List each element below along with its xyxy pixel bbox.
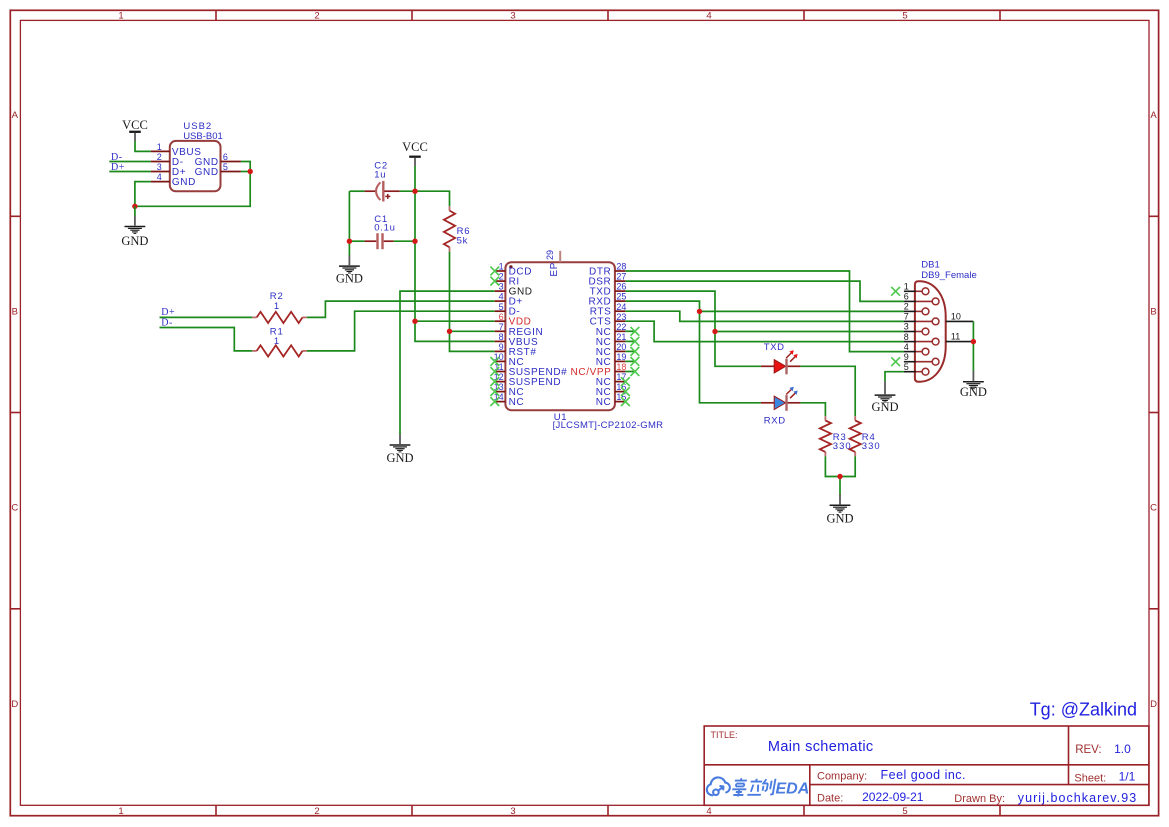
junction RXD branch bbox=[697, 309, 702, 314]
no-connect X U1 pin 14 bbox=[490, 397, 499, 406]
wire TXD led to R4 bbox=[800, 366, 855, 416]
svg-text:GND: GND bbox=[826, 511, 853, 525]
resistor R2 1 bbox=[252, 291, 307, 323]
no-connect X U1 pin 13 bbox=[490, 387, 499, 396]
svg-text:Date:: Date: bbox=[817, 792, 843, 804]
junction REGIN branch bbox=[447, 329, 452, 334]
wire R3/R4 bottoms to ground bbox=[825, 456, 855, 476]
svg-text:5: 5 bbox=[499, 302, 504, 312]
capacitor C1 0.1u bbox=[365, 214, 396, 249]
svg-text:5: 5 bbox=[902, 806, 907, 817]
no-connect X U1 pin 16 bbox=[621, 387, 630, 396]
wire RTS pin24 to DB9 pin7 bbox=[625, 311, 904, 321]
svg-text:C: C bbox=[11, 503, 18, 514]
svg-text:5: 5 bbox=[902, 10, 907, 21]
wire D- to R1 bbox=[160, 328, 253, 351]
svg-text:8: 8 bbox=[499, 332, 504, 342]
wire junction to GND symbol bbox=[134, 206, 136, 216]
ground GND (DB1 pin11) bbox=[960, 371, 987, 399]
wire D- to USB2 pin 2 bbox=[109, 161, 151, 163]
wire R2 to U1 pin 4 D+ bbox=[307, 301, 495, 317]
svg-text:A: A bbox=[12, 110, 19, 121]
svg-text:29: 29 bbox=[545, 250, 555, 260]
svg-text:EDA: EDA bbox=[776, 781, 810, 798]
led RXD (blue) bbox=[761, 387, 801, 427]
logo JLC EDA bbox=[707, 777, 809, 797]
svg-text:yurij.bochkarev.93: yurij.bochkarev.93 bbox=[1018, 791, 1137, 805]
svg-text:9: 9 bbox=[499, 342, 504, 352]
svg-text:[JLCSMT]-CP2102-GMR: [JLCSMT]-CP2102-GMR bbox=[553, 420, 664, 431]
svg-text:Sheet:: Sheet: bbox=[1074, 773, 1106, 785]
svg-text:1: 1 bbox=[274, 301, 279, 312]
wire D+ to R2 bbox=[160, 316, 253, 318]
resistor R3 330 bbox=[820, 416, 852, 456]
svg-text:6: 6 bbox=[223, 152, 228, 162]
ground GND (DB1 pin5) bbox=[871, 381, 898, 414]
wire VCC rail down to VBUS pin 8 bbox=[415, 166, 495, 341]
wire R1 to U1 pin 5 D- bbox=[307, 311, 495, 351]
svg-text:19: 19 bbox=[616, 352, 626, 362]
svg-text:4: 4 bbox=[706, 806, 711, 817]
power flag VCC (main) bbox=[402, 140, 428, 166]
wire RXD branch to DB9 pin2 bbox=[700, 310, 904, 312]
no-connect X U1 pin 18 bbox=[631, 367, 640, 376]
wire DB1 pin 10 to pin 11 bbox=[972, 321, 974, 341]
svg-text:GND: GND bbox=[172, 177, 196, 188]
svg-text:7: 7 bbox=[499, 322, 504, 332]
svg-text:24: 24 bbox=[616, 302, 626, 312]
svg-text:B: B bbox=[1150, 306, 1156, 317]
wire U1 pin 3 GND to ground bbox=[400, 291, 495, 434]
svg-text:18: 18 bbox=[616, 362, 626, 372]
svg-text:A: A bbox=[1150, 110, 1157, 121]
connector USB2 USB-B01 bbox=[151, 121, 241, 191]
svg-text:3: 3 bbox=[510, 10, 515, 21]
wire C2/C1 left vertical bbox=[348, 191, 350, 255]
svg-text:1: 1 bbox=[274, 336, 279, 347]
junction TXD branch bbox=[712, 329, 717, 334]
svg-text:TXD: TXD bbox=[764, 342, 785, 353]
power flag VCC (USB2) bbox=[122, 118, 148, 141]
wire TXD branch to DB9 pin3 bbox=[715, 331, 904, 333]
svg-text:GND: GND bbox=[960, 385, 987, 399]
title block bbox=[704, 726, 1149, 805]
svg-text:9: 9 bbox=[904, 352, 909, 362]
ic U1 [JLCSMT]-CP2102-GMR bbox=[494, 250, 664, 431]
svg-text:GND: GND bbox=[195, 167, 219, 178]
no-connect X U1 pin 15 bbox=[621, 397, 630, 406]
junction VCC/C1 node bbox=[412, 239, 417, 244]
wire DB1 pin 11 to ground bbox=[972, 342, 974, 371]
svg-text:21: 21 bbox=[616, 332, 626, 342]
svg-text:RXD: RXD bbox=[764, 415, 786, 426]
svg-text:D: D bbox=[1150, 699, 1157, 710]
ground GND (R3/R4) bbox=[826, 494, 853, 525]
svg-text:3: 3 bbox=[499, 282, 504, 292]
svg-text:3: 3 bbox=[510, 806, 515, 817]
svg-text:1: 1 bbox=[118, 806, 123, 817]
junction VCC/C2 node bbox=[412, 189, 417, 194]
svg-text:2: 2 bbox=[314, 806, 319, 817]
svg-text:Main schematic: Main schematic bbox=[768, 739, 874, 755]
wire VCC to USB2 pin 1 bbox=[135, 141, 151, 151]
svg-text:Drawn By:: Drawn By: bbox=[954, 793, 1005, 805]
wire USB2 pin 4 to ground junction bbox=[135, 182, 151, 207]
svg-text:NC: NC bbox=[509, 397, 525, 408]
svg-text:0.1u: 0.1u bbox=[374, 222, 395, 233]
ground GND (U1 pin3) bbox=[386, 434, 413, 465]
resistor R4 330 bbox=[850, 416, 881, 456]
wire VDD branch to pin 6 bbox=[415, 320, 495, 322]
svg-text:TITLE:: TITLE: bbox=[711, 730, 738, 740]
ground GND (C1/C2) bbox=[336, 255, 363, 285]
svg-text:1/1: 1/1 bbox=[1119, 770, 1136, 784]
svg-text:28: 28 bbox=[616, 262, 626, 272]
wire DTR pin28 to DB9 pin4 bbox=[625, 271, 904, 352]
svg-text:EP: EP bbox=[549, 262, 560, 277]
svg-text:330: 330 bbox=[862, 441, 881, 452]
wire C2 row left bbox=[349, 190, 364, 192]
ground GND (USB) bbox=[121, 216, 148, 248]
svg-text:23: 23 bbox=[616, 312, 626, 322]
svg-text:5: 5 bbox=[904, 362, 909, 372]
wire D+ to USB2 pin 3 bbox=[109, 171, 151, 173]
svg-text:GND: GND bbox=[121, 234, 148, 248]
wire REGIN branch to pin 7 bbox=[450, 330, 495, 332]
svg-text:11: 11 bbox=[951, 332, 960, 342]
svg-text:330: 330 bbox=[833, 441, 852, 452]
svg-text:Tg: @Zalkind: Tg: @Zalkind bbox=[1030, 700, 1137, 720]
junction at USB ground node bbox=[132, 204, 137, 209]
no-connect X U1 pin 19 bbox=[631, 357, 640, 366]
no-connect X DB1 pin 1 bbox=[891, 287, 900, 296]
svg-text:20: 20 bbox=[616, 342, 626, 352]
svg-text:1: 1 bbox=[904, 282, 909, 292]
no-connect X U1 pin 1 bbox=[490, 267, 499, 276]
svg-text:REV:: REV: bbox=[1075, 744, 1101, 756]
svg-text:GND: GND bbox=[871, 400, 898, 414]
svg-text:8: 8 bbox=[904, 332, 909, 342]
svg-text:6: 6 bbox=[904, 292, 909, 302]
svg-text:2: 2 bbox=[314, 10, 319, 21]
svg-text:VCC: VCC bbox=[402, 140, 428, 154]
svg-text:1: 1 bbox=[499, 262, 504, 272]
svg-text:VCC: VCC bbox=[122, 118, 148, 132]
no-connect X U1 pin 10 bbox=[490, 357, 499, 366]
svg-text:26: 26 bbox=[616, 282, 626, 292]
wire stub U1 pin 21 bbox=[625, 340, 635, 342]
wire C1 row left bbox=[349, 240, 364, 242]
no-connect X U1 pin 12 bbox=[490, 377, 499, 386]
resistor R1 1 bbox=[252, 326, 307, 356]
svg-text:6: 6 bbox=[499, 312, 504, 322]
svg-text:3: 3 bbox=[904, 322, 909, 332]
junction R3/R4 ground node bbox=[837, 474, 842, 479]
svg-text:Company:: Company: bbox=[817, 771, 867, 783]
svg-text:10: 10 bbox=[951, 312, 961, 322]
svg-text:27: 27 bbox=[616, 272, 626, 282]
wire RXD led to R3 bbox=[800, 403, 825, 416]
svg-text:C: C bbox=[1150, 503, 1157, 514]
no-connect X U1 pin 2 bbox=[490, 277, 499, 286]
wire C2 row right to VCC rail and R6 bbox=[400, 191, 450, 206]
svg-text:Feel good inc.: Feel good inc. bbox=[881, 768, 967, 782]
svg-text:3: 3 bbox=[157, 162, 162, 172]
svg-text:4: 4 bbox=[157, 172, 162, 182]
wire stub U1 pin 20 bbox=[625, 350, 635, 352]
svg-text:D: D bbox=[11, 699, 18, 710]
svg-text:1: 1 bbox=[157, 142, 162, 152]
svg-text:7: 7 bbox=[904, 312, 909, 322]
svg-text:DB9_Female: DB9_Female bbox=[921, 270, 976, 281]
capacitor C2 1u (polarized) bbox=[365, 161, 400, 202]
wire CTS pin23 to DB9 pin8 bbox=[625, 321, 904, 341]
svg-text:5k: 5k bbox=[457, 235, 469, 246]
svg-text:4: 4 bbox=[499, 292, 504, 302]
svg-text:2: 2 bbox=[499, 272, 504, 282]
no-connect X U1 pin 21 bbox=[631, 337, 640, 346]
connector DB1 DB9_Female bbox=[904, 260, 977, 382]
junction C1/C2 left (ground) node bbox=[347, 239, 352, 244]
svg-text:GND: GND bbox=[336, 272, 363, 286]
svg-text:GND: GND bbox=[386, 451, 413, 465]
svg-text:4: 4 bbox=[706, 10, 711, 21]
wire DB1 pin 5 to ground bbox=[885, 372, 904, 382]
svg-text:4: 4 bbox=[904, 342, 909, 352]
wire stub U1 pin 22 bbox=[625, 330, 635, 332]
svg-text:NC: NC bbox=[596, 397, 612, 408]
wire USB2 pins 5,6 ground loop bbox=[135, 162, 250, 207]
svg-text:2: 2 bbox=[157, 152, 162, 162]
junction at USB2 pin 5 bbox=[248, 169, 253, 174]
junction VDD branch bbox=[412, 319, 417, 324]
svg-text:2: 2 bbox=[904, 302, 909, 312]
wire R6 bottom to RST# pin 9 bbox=[450, 252, 495, 352]
no-connect X U1 pin 22 bbox=[631, 327, 640, 336]
led TXD (red) bbox=[761, 342, 801, 374]
wire C1 row right bbox=[394, 240, 415, 242]
no-connect X U1 pin 17 bbox=[621, 377, 630, 386]
no-connect X DB1 pin 9 bbox=[891, 357, 900, 366]
resistor R6 5k bbox=[444, 206, 470, 251]
svg-text:22: 22 bbox=[616, 322, 626, 332]
wire RXD pin25 down to LED bbox=[625, 301, 761, 403]
svg-text:5: 5 bbox=[223, 162, 228, 172]
wire stub U1 pin 19 bbox=[625, 360, 635, 362]
svg-text:B: B bbox=[12, 306, 18, 317]
svg-text:1: 1 bbox=[118, 10, 123, 21]
wire stub U1 pin 18 bbox=[625, 371, 635, 373]
svg-text:25: 25 bbox=[616, 292, 626, 302]
svg-text:2022-09-21: 2022-09-21 bbox=[862, 790, 924, 804]
wire DSR pin27 to DB9 pin6 bbox=[625, 281, 904, 301]
svg-text:1u: 1u bbox=[374, 170, 386, 181]
no-connect X U1 pin 11 bbox=[490, 367, 499, 376]
svg-text:1.0: 1.0 bbox=[1114, 742, 1131, 756]
wire TXD pin26 down to LED bbox=[625, 291, 761, 366]
junction DB1 pin 11 bbox=[971, 339, 976, 344]
svg-text:USB-B01: USB-B01 bbox=[183, 131, 223, 142]
no-connect X U1 pin 20 bbox=[631, 347, 640, 356]
